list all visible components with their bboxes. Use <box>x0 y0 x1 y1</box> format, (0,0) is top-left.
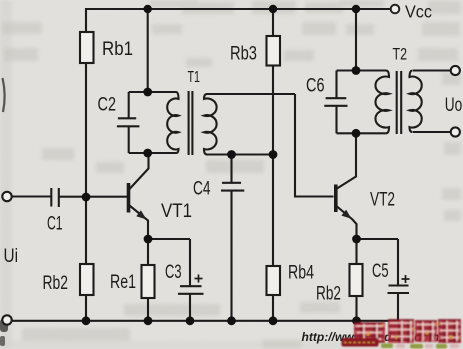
svg-text:T1: T1 <box>188 69 201 86</box>
svg-text:Rb2: Rb2 <box>43 272 69 294</box>
svg-text:VT1: VT1 <box>161 200 192 222</box>
svg-text:T2: T2 <box>393 46 408 64</box>
svg-text:C6: C6 <box>306 75 325 97</box>
svg-text:C1: C1 <box>47 213 63 235</box>
svg-text:Re1: Re1 <box>110 271 136 293</box>
svg-text:C2: C2 <box>98 94 117 116</box>
svg-text:Rb1: Rb1 <box>102 38 133 60</box>
svg-text:C4: C4 <box>193 178 211 200</box>
svg-text:Rb2: Rb2 <box>316 283 341 305</box>
svg-text:C5: C5 <box>372 260 389 282</box>
svg-text:Ui: Ui <box>4 245 19 267</box>
svg-text:Uo: Uo <box>445 94 463 116</box>
svg-text:Vcc: Vcc <box>405 2 432 22</box>
svg-text:Rb4: Rb4 <box>288 262 314 284</box>
svg-text:C3: C3 <box>165 261 182 283</box>
svg-text:VT2: VT2 <box>370 189 395 211</box>
svg-text:Rb3: Rb3 <box>230 43 257 65</box>
